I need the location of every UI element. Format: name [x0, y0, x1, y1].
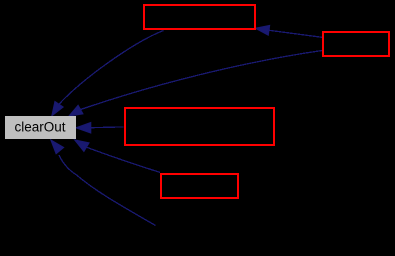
arrowhead at top box right edge [255, 25, 269, 35]
wire: edge from small box to clearOut [87, 147, 161, 172]
wire: edge from top box to clearOut [59, 31, 164, 105]
node: right red box (empty label) [323, 32, 389, 56]
arrowhead at clearOut right edge [76, 123, 91, 134]
arrowhead at clearOut bottom-left [51, 140, 64, 154]
arrowhead at clearOut top-right [69, 105, 83, 116]
wire: edge from bottom (hidden node) to clearOut [59, 155, 156, 226]
svg-text:clearOut: clearOut [14, 120, 65, 135]
node: middle red box (two-line, empty label) [125, 108, 274, 145]
node: top red box (empty label) [144, 5, 255, 29]
wire: edge from right box to top box [269, 30, 322, 37]
arrowhead at clearOut top-left [52, 102, 63, 116]
node: clearOut (current function, gray) [5, 116, 76, 139]
wire: edge from right box to clearOut [81, 51, 323, 110]
wire: edge from middle box to clearOut [91, 126, 124, 129]
node: small red box (empty label) [161, 174, 238, 198]
arrowhead at clearOut bottom-right [75, 140, 90, 152]
